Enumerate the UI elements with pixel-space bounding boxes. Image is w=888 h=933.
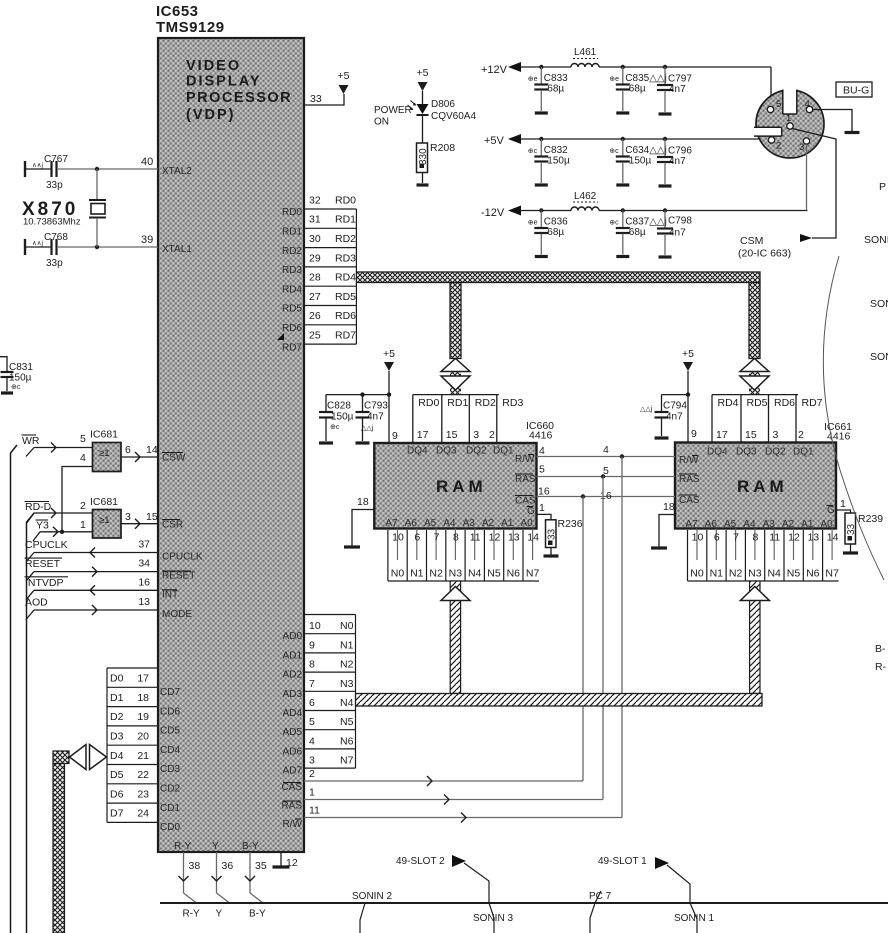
svg-text:33p: 33p <box>46 258 63 269</box>
bus entry triangles (data bus) <box>70 745 87 770</box>
svg-text:RD1: RD1 <box>282 227 302 238</box>
svg-text:ON: ON <box>374 117 389 128</box>
svg-text:POWER: POWER <box>374 105 412 116</box>
svg-text:AD0: AD0 <box>283 631 303 642</box>
svg-text:C798: C798 <box>668 216 692 227</box>
svg-text:6: 6 <box>125 444 131 456</box>
wire R/W vertical <box>621 457 623 818</box>
svg-text:CPUCLK: CPUCLK <box>25 539 68 551</box>
svg-text:RD2: RD2 <box>475 397 496 409</box>
svg-text:CPUCLK: CPUCLK <box>162 552 203 563</box>
svg-text:⊕e: ⊕e <box>528 76 538 83</box>
svg-text:Y: Y <box>216 909 223 920</box>
svg-text:6: 6 <box>414 532 420 544</box>
svg-text:CAS: CAS <box>281 782 302 793</box>
svg-text:A0: A0 <box>520 518 533 529</box>
svg-text:4n7: 4n7 <box>669 156 686 167</box>
svg-text:N5: N5 <box>340 716 354 728</box>
connector pin 4 <box>806 106 812 112</box>
smudge mark <box>277 333 284 340</box>
svg-text:R/W: R/W <box>679 455 699 466</box>
svg-text:D5: D5 <box>110 769 124 781</box>
svg-text:RESET: RESET <box>162 571 195 582</box>
svg-text:DQ1: DQ1 <box>493 446 514 457</box>
svg-text:R208: R208 <box>430 142 455 154</box>
svg-text:16: 16 <box>600 490 612 502</box>
svg-text:20: 20 <box>137 731 149 743</box>
svg-text:C768: C768 <box>44 232 68 243</box>
svg-text:14: 14 <box>527 532 539 544</box>
svg-text:13: 13 <box>138 596 150 608</box>
RAM IC660 body <box>374 443 536 529</box>
IC VDP IC653 TMS9129 body <box>158 38 304 852</box>
svg-text:SONIN 1: SONIN 1 <box>674 913 714 924</box>
svg-text:4n7: 4n7 <box>666 412 683 423</box>
svg-text:G: G <box>527 506 535 517</box>
net RAS between RAMs <box>537 476 676 478</box>
svg-text:RD6: RD6 <box>774 397 795 409</box>
svg-text:N6: N6 <box>507 568 521 580</box>
node XTAL1 wire <box>58 246 158 248</box>
svg-text:DQ1: DQ1 <box>793 447 814 458</box>
svg-text:12: 12 <box>788 532 800 544</box>
svg-text:N6: N6 <box>340 735 354 747</box>
svg-text:15: 15 <box>146 511 158 523</box>
svg-text:25: 25 <box>309 330 321 342</box>
svg-text:68µ: 68µ <box>629 227 646 238</box>
connector pin 1 <box>787 123 793 129</box>
or-gate IC681b <box>93 510 122 539</box>
svg-text:DISPLAY: DISPLAY <box>186 74 262 90</box>
net R/W between RAMs <box>537 456 676 458</box>
connector pin 3 <box>803 138 809 144</box>
svg-text:18: 18 <box>137 692 149 704</box>
svg-text:N0: N0 <box>340 620 354 632</box>
svg-text:RD6: RD6 <box>282 323 302 334</box>
svg-text:A7: A7 <box>685 519 698 530</box>
svg-text:4: 4 <box>539 445 545 457</box>
svg-text:XTAL2: XTAL2 <box>162 166 192 177</box>
svg-text:RAS: RAS <box>281 801 302 812</box>
capacitor C836 <box>540 211 542 228</box>
svg-text:C634△△j: C634△△j <box>625 145 667 156</box>
svg-text:3: 3 <box>125 511 131 523</box>
wire +5 to pin 9 IC661 <box>687 371 689 443</box>
svg-text:INTVDP: INTVDP <box>25 577 64 589</box>
svg-text:14: 14 <box>827 532 839 544</box>
svg-text:DQ3: DQ3 <box>436 446 457 457</box>
svg-text:CD6: CD6 <box>160 706 180 717</box>
svg-text:2: 2 <box>798 429 804 441</box>
address bus N0-N7 pin boxes <box>304 615 356 769</box>
svg-text:A2: A2 <box>482 518 495 529</box>
svg-text:DQ2: DQ2 <box>466 446 487 457</box>
svg-text:2: 2 <box>776 141 781 152</box>
svg-text:RD1: RD1 <box>447 397 468 409</box>
svg-text:1: 1 <box>309 787 315 799</box>
svg-text:3: 3 <box>309 755 315 767</box>
svg-text:R/W: R/W <box>515 454 535 465</box>
svg-text:30: 30 <box>309 233 321 245</box>
RAM IC661 body <box>675 443 836 529</box>
capacitor C831 <box>0 357 7 371</box>
svg-text:D0: D0 <box>110 673 124 685</box>
svg-text:N0: N0 <box>690 568 704 580</box>
wire output B-Y pin 35 <box>249 852 251 893</box>
svg-text:C796: C796 <box>668 146 692 157</box>
svg-text:17: 17 <box>716 429 728 441</box>
svg-text:AOD: AOD <box>25 597 48 609</box>
svg-text:10: 10 <box>309 620 321 632</box>
svg-text:N3: N3 <box>748 568 762 580</box>
svg-text:RD5: RD5 <box>747 397 768 409</box>
svg-text:C797: C797 <box>668 74 692 85</box>
svg-text:33: 33 <box>547 528 558 540</box>
junctions on -12V <box>539 208 543 212</box>
svg-text:RESET: RESET <box>25 558 61 570</box>
svg-text:RD1: RD1 <box>335 214 356 226</box>
svg-text:⊕c: ⊕c <box>609 148 619 155</box>
bus RD hatched vertical to IC660 <box>450 283 461 359</box>
svg-text:R236: R236 <box>558 518 583 530</box>
inductor L461 <box>571 64 599 67</box>
svg-text:A6: A6 <box>705 519 718 530</box>
svg-text:17: 17 <box>417 429 429 441</box>
svg-text:WR: WR <box>22 435 40 447</box>
svg-text:36: 36 <box>222 860 234 872</box>
svg-text:26: 26 <box>309 310 321 322</box>
connector pin 5 <box>767 106 773 112</box>
svg-text:A5: A5 <box>724 519 737 530</box>
wire output Y pin 36 <box>216 852 218 893</box>
svg-text:27: 27 <box>309 291 321 303</box>
svg-text:N2: N2 <box>340 659 354 671</box>
svg-text:DQ4: DQ4 <box>407 446 428 457</box>
svg-text:∧∧j: ∧∧j <box>32 240 43 247</box>
svg-text:4n7: 4n7 <box>669 84 686 95</box>
svg-text:N4: N4 <box>468 568 482 580</box>
wire RAS vertical <box>602 477 604 800</box>
svg-text:A1: A1 <box>501 518 514 529</box>
svg-text:15: 15 <box>745 429 757 441</box>
svg-text:+5: +5 <box>383 348 395 360</box>
svg-text:TMS9129: TMS9129 <box>156 19 225 36</box>
svg-text:RAS: RAS <box>515 474 536 485</box>
svg-text:150µ: 150µ <box>629 156 652 167</box>
svg-text:CD5: CD5 <box>160 726 180 737</box>
svg-text:(20-IC 663): (20-IC 663) <box>738 248 791 260</box>
svg-text:5: 5 <box>539 464 545 476</box>
wire pin3 to -12V <box>806 144 808 210</box>
svg-text:DQ2: DQ2 <box>765 447 786 458</box>
svg-text:≥1: ≥1 <box>99 515 110 526</box>
svg-text:CSM: CSM <box>740 235 763 247</box>
svg-text:L462: L462 <box>574 191 597 202</box>
svg-text:C767: C767 <box>44 154 68 165</box>
svg-text:⊕c: ⊕c <box>330 424 340 431</box>
svg-text:RD3: RD3 <box>335 252 356 264</box>
svg-text:C836: C836 <box>544 217 568 228</box>
svg-text:10: 10 <box>692 532 704 544</box>
svg-text:⊕e: ⊕e <box>609 76 619 83</box>
svg-text:34: 34 <box>138 558 150 570</box>
svg-text:AD7: AD7 <box>283 766 303 777</box>
svg-text:68µ: 68µ <box>547 84 564 95</box>
svg-text:IC681: IC681 <box>90 429 118 441</box>
svg-text:N4: N4 <box>767 568 781 580</box>
wire gate1 pin4 <box>62 467 93 532</box>
bus RD hatched vertical to IC661 <box>749 283 760 359</box>
capacitor C767 <box>24 161 26 177</box>
svg-text:32: 32 <box>309 194 321 206</box>
svg-text:N3: N3 <box>340 678 354 690</box>
svg-text:2: 2 <box>489 429 495 441</box>
address bus hatched vertical (IC660) <box>450 581 460 694</box>
svg-text:RD4: RD4 <box>335 272 356 284</box>
svg-text:CSW: CSW <box>162 453 186 464</box>
svg-text:(VDP): (VDP) <box>186 107 235 123</box>
capacitor C796 <box>664 139 666 156</box>
svg-text:RAM: RAM <box>436 477 487 496</box>
svg-text:2: 2 <box>80 500 86 512</box>
svg-text:CD0: CD0 <box>160 822 180 833</box>
net CAS between RAMs <box>537 496 676 498</box>
wire gate2 output to CSR <box>121 523 158 525</box>
svg-text:17: 17 <box>137 673 149 685</box>
node XTAL2 wire <box>58 168 158 170</box>
svg-text:7: 7 <box>434 532 440 544</box>
svg-text:RD7: RD7 <box>802 397 823 409</box>
svg-text:16: 16 <box>538 486 550 498</box>
svg-text:CAS: CAS <box>515 496 536 507</box>
svg-text:IC653: IC653 <box>156 3 199 20</box>
junction on XTAL2 wire <box>95 167 99 171</box>
svg-text:5: 5 <box>309 716 315 728</box>
svg-text:CD2: CD2 <box>160 784 180 795</box>
svg-text:≥1: ≥1 <box>99 448 110 459</box>
address bus hatched horizontal <box>356 694 763 707</box>
wire RAS pin 1 <box>304 799 603 801</box>
svg-text:CSR: CSR <box>162 520 183 531</box>
svg-text:A2: A2 <box>782 519 795 530</box>
svg-text:4n7: 4n7 <box>669 228 686 239</box>
svg-text:DQ4: DQ4 <box>707 447 728 458</box>
bus entry arrow (IC660) <box>441 587 470 601</box>
wire CAS pin 2 <box>304 780 583 782</box>
svg-text:DQ3: DQ3 <box>736 447 757 458</box>
svg-text:A4: A4 <box>443 518 456 529</box>
svg-text:D4: D4 <box>110 750 124 762</box>
svg-text:23: 23 <box>137 788 149 800</box>
svg-text:N2: N2 <box>429 568 443 580</box>
svg-text:28: 28 <box>309 272 321 284</box>
svg-text:-12V: -12V <box>481 207 505 219</box>
svg-text:3: 3 <box>799 142 804 153</box>
svg-text:10: 10 <box>392 532 404 544</box>
data bus D0-D7 pin boxes <box>107 668 158 822</box>
svg-text:1: 1 <box>80 519 86 531</box>
svg-text:C794: C794 <box>663 401 687 412</box>
svg-text:AD3: AD3 <box>283 689 303 700</box>
svg-text:24: 24 <box>137 808 149 820</box>
svg-text:4: 4 <box>805 99 810 110</box>
svg-text:37: 37 <box>138 539 150 551</box>
svg-text:RD3: RD3 <box>282 265 302 276</box>
capacitor C794 <box>661 395 663 411</box>
svg-text:CQV60A4: CQV60A4 <box>431 111 476 122</box>
svg-text:N1: N1 <box>340 639 354 651</box>
svg-text:11: 11 <box>470 532 481 544</box>
capacitor C634 <box>622 139 624 156</box>
wire +5 to pin 9 IC660 <box>388 371 390 443</box>
svg-text:10.73863Mhz: 10.73863Mhz <box>23 217 81 228</box>
svg-text:C837△△j: C837△△j <box>625 217 667 228</box>
svg-text:P: P <box>879 181 886 193</box>
svg-text:40: 40 <box>141 156 153 168</box>
svg-text:1: 1 <box>786 113 791 124</box>
capacitor C835 <box>622 67 624 84</box>
svg-text:RD6: RD6 <box>335 310 356 322</box>
wire gate1 output to CSW <box>121 456 158 458</box>
svg-text:8: 8 <box>309 659 315 671</box>
svg-text:∧∧j: ∧∧j <box>32 162 43 169</box>
or-gate IC681a <box>93 443 122 472</box>
svg-text:R/W: R/W <box>283 819 303 830</box>
svg-text:12: 12 <box>286 857 298 869</box>
svg-text:AD5: AD5 <box>283 727 303 738</box>
svg-text:38: 38 <box>189 860 201 872</box>
junctions on +5V <box>539 137 543 141</box>
svg-text:33: 33 <box>310 93 322 105</box>
svg-text:+5: +5 <box>417 67 429 79</box>
svg-text:19: 19 <box>137 711 149 723</box>
svg-text:1: 1 <box>840 498 846 510</box>
svg-text:150µ: 150µ <box>547 156 570 167</box>
svg-text:SONIN: SONIN <box>864 234 888 246</box>
junctions on +12V <box>539 65 543 69</box>
svg-text:C833: C833 <box>544 73 568 84</box>
wire pin1 to CSM label <box>792 129 836 239</box>
svg-text:RD2: RD2 <box>335 233 356 245</box>
svg-text:CD1: CD1 <box>160 803 180 814</box>
svg-text:RD7: RD7 <box>335 330 356 342</box>
svg-text:AD2: AD2 <box>283 670 303 681</box>
svg-text:1: 1 <box>539 502 545 514</box>
wire output R-Y pin 38 <box>183 852 185 893</box>
connector BU-G <box>836 82 872 97</box>
svg-text:N0: N0 <box>391 568 405 580</box>
svg-text:D2: D2 <box>110 711 124 723</box>
svg-text:N7: N7 <box>825 568 839 580</box>
wire pin4 to ground <box>813 110 852 132</box>
svg-text:B-: B- <box>875 643 886 655</box>
svg-text:A5: A5 <box>424 518 437 529</box>
svg-text:+5: +5 <box>338 70 350 82</box>
svg-text:150µ: 150µ <box>331 412 354 423</box>
wire cap rail IC660 <box>326 394 389 396</box>
svg-text:D1: D1 <box>110 692 124 704</box>
svg-text:VIDEO: VIDEO <box>186 58 241 74</box>
svg-text:IC681: IC681 <box>90 496 118 508</box>
svg-text:13: 13 <box>807 532 819 544</box>
svg-text:RD2: RD2 <box>282 246 302 257</box>
svg-text:A1: A1 <box>801 519 814 530</box>
capacitor C798 <box>664 211 666 228</box>
crystal X870 <box>96 169 98 199</box>
svg-text:A6: A6 <box>405 518 418 529</box>
svg-text:N1: N1 <box>710 568 724 580</box>
ground pin 12 <box>280 852 282 866</box>
svg-text:SONIN: SONIN <box>870 351 888 363</box>
svg-text:CAS: CAS <box>679 495 700 506</box>
svg-text:35: 35 <box>255 860 267 872</box>
svg-text:39: 39 <box>141 234 153 246</box>
bus entry arrow (IC661) <box>740 587 769 601</box>
svg-text:13: 13 <box>508 532 520 544</box>
svg-text:4: 4 <box>80 452 86 464</box>
svg-text:4: 4 <box>309 735 315 747</box>
svg-text:SONIN 2: SONIN 2 <box>352 891 392 902</box>
data bus hatched (left) <box>53 751 69 764</box>
svg-text:4: 4 <box>603 444 609 456</box>
svg-text:4n7: 4n7 <box>367 412 384 423</box>
svg-text:C828: C828 <box>327 401 351 412</box>
svg-text:Y: Y <box>212 841 219 852</box>
svg-text:AD6: AD6 <box>283 746 303 757</box>
wire cap rail IC661 <box>662 394 689 396</box>
svg-text:⊕c: ⊕c <box>528 148 538 155</box>
svg-text:B-Y: B-Y <box>249 909 266 920</box>
svg-text:CD3: CD3 <box>160 764 180 775</box>
svg-text:8: 8 <box>752 532 758 544</box>
svg-text:68µ: 68µ <box>629 84 646 95</box>
svg-text:11: 11 <box>769 532 780 544</box>
svg-text:6: 6 <box>309 697 315 709</box>
capacitor C768 <box>24 239 26 255</box>
svg-text:49-SLOT 2: 49-SLOT 2 <box>396 856 445 867</box>
svg-text:RD3: RD3 <box>502 397 523 409</box>
address bus hatched vertical (IC661) <box>750 581 760 694</box>
wire pin 33 to +5 <box>304 94 344 105</box>
svg-text:N1: N1 <box>410 568 424 580</box>
connector pin 2 <box>768 137 774 143</box>
svg-text:3: 3 <box>773 429 779 441</box>
svg-text:RD7: RD7 <box>282 342 302 353</box>
svg-text:D806: D806 <box>431 99 455 110</box>
svg-text:18: 18 <box>357 496 369 508</box>
svg-text:R-Y: R-Y <box>183 909 201 920</box>
svg-text:XTAL1: XTAL1 <box>162 244 192 255</box>
svg-text:33: 33 <box>846 523 857 535</box>
svg-text:N3: N3 <box>449 568 463 580</box>
svg-text:A0: A0 <box>820 519 833 530</box>
svg-text:5: 5 <box>80 433 86 445</box>
wire CAS vertical <box>582 497 584 782</box>
svg-text:R-: R- <box>875 661 887 673</box>
svg-text:RD4: RD4 <box>282 284 302 295</box>
svg-text:CD4: CD4 <box>160 745 180 756</box>
svg-text:RD0: RD0 <box>282 207 302 218</box>
svg-text:11: 11 <box>309 805 320 817</box>
capacitor C837 <box>622 211 624 228</box>
svg-text:RAM: RAM <box>737 477 788 496</box>
svg-text:150µ: 150µ <box>9 373 32 384</box>
address pin wires RAM bottom <box>688 529 839 582</box>
svg-text:L461: L461 <box>574 47 597 58</box>
svg-text:RD-D: RD-D <box>25 501 52 513</box>
svg-text:N5: N5 <box>487 568 501 580</box>
svg-text:49-SLOT 1: 49-SLOT 1 <box>598 856 647 867</box>
